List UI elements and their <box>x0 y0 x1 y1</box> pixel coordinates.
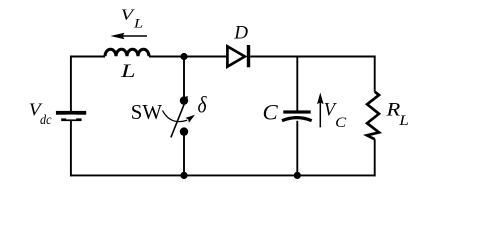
svg-text:C: C <box>263 101 279 125</box>
svg-text:δ: δ <box>198 93 208 119</box>
svg-text:L: L <box>120 61 136 82</box>
svg-text:L: L <box>398 113 409 129</box>
junction dot bottom switch branch <box>180 172 187 179</box>
switch SW top contact dot <box>180 96 188 104</box>
inductor L <box>105 49 149 56</box>
battery Vdc gap notch <box>66 115 76 120</box>
svg-text:D: D <box>233 22 248 43</box>
switch action arc <box>163 111 188 122</box>
wire capacitor branch lower <box>296 121 298 176</box>
wire left side lower <box>70 121 72 176</box>
diode D cathode bar <box>247 45 250 67</box>
wire capacitor branch upper <box>296 57 298 111</box>
wire inductor to node A <box>149 56 227 58</box>
battery Vdc top plate <box>56 111 86 115</box>
svg-text:C: C <box>335 115 347 131</box>
resistor RL zigzag <box>367 92 379 140</box>
wire switch branch upper <box>183 57 185 101</box>
junction dot bottom capacitor branch <box>294 172 301 179</box>
battery Vdc bottom plate <box>61 118 81 121</box>
diode D triangle <box>227 46 244 66</box>
switch SW bottom contact dot <box>180 127 188 135</box>
arrow V_C (points up) <box>319 102 321 128</box>
capacitor C bottom curved plate <box>282 118 312 121</box>
svg-text:R: R <box>385 99 400 120</box>
wire right side upper <box>374 56 376 92</box>
wire right side lower <box>374 139 376 176</box>
svg-text:dc: dc <box>40 113 52 128</box>
wire top-left segment <box>70 56 105 58</box>
capacitor C top plate <box>283 110 310 113</box>
svg-text:SW: SW <box>131 100 163 124</box>
wire switch branch lower <box>183 132 185 176</box>
switch arc arrowhead <box>186 115 196 123</box>
wire diode to top-right corner <box>250 56 375 58</box>
switch SW blade <box>171 96 187 137</box>
node A junction dot (switch top of branch) <box>180 53 187 60</box>
arrow V_L (points left) <box>122 35 147 37</box>
svg-text:L: L <box>133 16 143 30</box>
wire left side upper <box>70 56 72 111</box>
wire bottom <box>70 174 376 176</box>
